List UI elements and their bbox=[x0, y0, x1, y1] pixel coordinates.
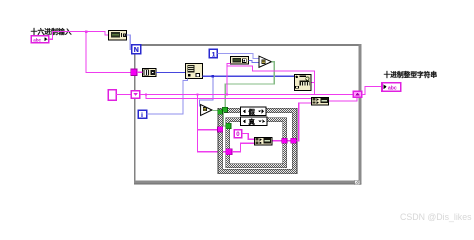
outer case selector 假 bbox=[241, 107, 267, 116]
svg-text:N: N bbox=[134, 47, 139, 54]
magenta tunnel on outer case left bbox=[218, 127, 223, 132]
wire: triangle to inner selector tunnels bbox=[212, 110, 218, 112]
icon3 bbox=[186, 64, 203, 79]
inner case selector 真 bbox=[241, 117, 268, 126]
icon1: string function (top, outside loop) bbox=[109, 31, 127, 41]
branch: down to icon6 feed line bbox=[146, 94, 312, 98]
green tunnel on outer case left bbox=[218, 110, 223, 115]
icon2: string bead bbox=[143, 69, 157, 77]
wire: 0 to icon7 bbox=[242, 134, 255, 140]
loop right border output tunnel bbox=[353, 91, 362, 97]
icon6 concatenate bbox=[312, 98, 329, 106]
svg-text:abc: abc bbox=[388, 85, 397, 91]
wire: icon2 to icon3 bbox=[156, 71, 186, 73]
svg-text:1: 1 bbox=[212, 51, 216, 58]
branch: down to case tunnels bbox=[198, 94, 218, 129]
op: greater/equal triangle bbox=[201, 105, 212, 116]
string control (hex input) bbox=[31, 36, 48, 43]
op: equal? bbox=[259, 56, 272, 67]
i iteration terminal bbox=[138, 110, 146, 119]
left border indexing tunnel bbox=[131, 91, 140, 99]
magenta tunnel on inner case right bbox=[282, 138, 287, 143]
main pink bus along y=94.4 bbox=[140, 93, 353, 95]
wire: equal out, green down to case selector tunnel bbox=[225, 62, 274, 107]
string indicator bbox=[382, 83, 401, 92]
svg-text:i: i bbox=[141, 112, 143, 119]
magenta tunnel on outer case right bbox=[291, 138, 296, 143]
icon4 bbox=[231, 57, 249, 65]
svg-text:假: 假 bbox=[249, 107, 256, 116]
wire: 1 to equal upper input bbox=[217, 54, 258, 59]
wire: icon1 to N terminal bbox=[127, 35, 132, 49]
wire: icon7 out through right tunnels to icon6 bbox=[272, 140, 291, 142]
N count terminal bbox=[132, 45, 141, 54]
wire: icon3 out to icon5 with junction bbox=[203, 75, 294, 77]
wire: icon6 to loop output tunnel bbox=[329, 98, 357, 101]
wire: inner tunnel to icon7 bbox=[232, 143, 254, 152]
magenta tunnel on inner case left bbox=[226, 149, 232, 155]
left border tunnel (solid) bbox=[131, 69, 137, 76]
svg-text:abc: abc bbox=[33, 37, 41, 42]
outer case structure (hatched) bbox=[218, 108, 297, 174]
svg-text:CSDN @Dis_likes: CSDN @Dis_likes bbox=[400, 212, 472, 222]
icon5 bbox=[295, 75, 312, 91]
wire: icon4 to equal lower input bbox=[249, 60, 259, 62]
icon7 concatenate bbox=[255, 138, 273, 146]
empty string constant bbox=[108, 90, 116, 101]
svg-text:真: 真 bbox=[249, 117, 256, 126]
green tunnel on outer case top bbox=[222, 107, 227, 112]
loop resize glyph bbox=[355, 180, 360, 184]
wire: tunnel to icon2 bbox=[137, 71, 143, 73]
wire: constant to indexing tunnel bbox=[116, 93, 131, 95]
pink fan wire: up branch to icon4/icon5 bbox=[227, 63, 231, 94]
inner case structure (hatched) bbox=[226, 118, 287, 168]
green tunnel on inner case left bbox=[226, 123, 231, 128]
wire: control to icon1 and down to loop tunnel bbox=[49, 32, 109, 40]
junction dot bbox=[85, 30, 88, 33]
wire: i terminal to icon3 bottom bbox=[147, 79, 188, 114]
constant 0 bbox=[234, 130, 242, 138]
for loop frame bbox=[134, 44, 361, 46]
constant 1 bbox=[209, 49, 217, 58]
svg-text:十进制整型字符串: 十进制整型字符串 bbox=[384, 70, 438, 79]
wire: tunnel to indicator bbox=[362, 87, 382, 95]
